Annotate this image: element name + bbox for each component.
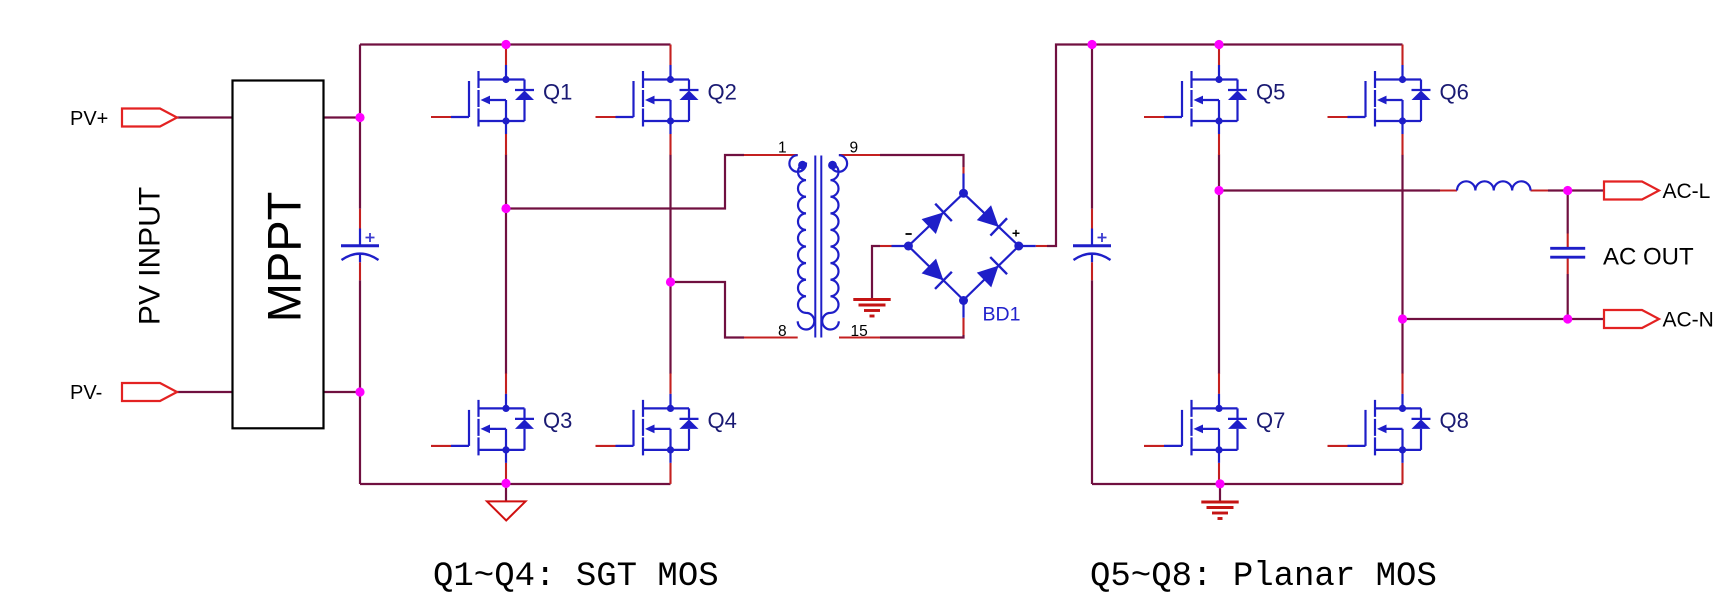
svg-text:Q2: Q2 (708, 79, 737, 104)
transistor Q8 (1328, 373, 1469, 484)
wire bottom rail left (360, 483, 671, 485)
wire AC-N rail (1403, 318, 1605, 320)
wire primary pin8 (671, 282, 745, 338)
connector PV- (122, 383, 177, 401)
ground under first bridge (487, 501, 526, 520)
diode BD1 upper-left (920, 204, 951, 236)
red pin stub pin15 (839, 336, 880, 338)
transistor Q1 (431, 45, 572, 156)
red pin stub pin9 (839, 154, 880, 156)
svg-text:Q8: Q8 (1440, 408, 1469, 433)
red pin stub pin1 (744, 154, 798, 156)
wire left vertical bus (359, 45, 361, 485)
wire bridge plus riser and top rail right (1047, 45, 1403, 247)
wire MPPT to bus upper (324, 116, 360, 118)
capacitor C3 (1550, 248, 1585, 257)
wire pin15 to bridge bottom (880, 335, 964, 338)
wire cap2 vertical (1091, 45, 1093, 485)
transistor Q7 (1144, 373, 1285, 484)
capacitor C2 (1073, 209, 1111, 281)
wire Q1-Q3 leg (505, 155, 507, 374)
red pin stub inductor right (1531, 189, 1549, 191)
red pin stub bridge bottom (962, 318, 964, 335)
wire AC-L to connector (1548, 189, 1604, 191)
ground under second bridge (1201, 502, 1238, 519)
capacitor C1 (341, 209, 379, 281)
node dots BD1 (904, 189, 1023, 305)
transistor Q6 (1328, 45, 1469, 156)
svg-text:Q3: Q3 (543, 408, 572, 433)
red pin stub bridge left (880, 245, 892, 247)
svg-text:Q5~Q8: Planar MOS: Q5~Q8: Planar MOS (1090, 558, 1437, 596)
svg-text:8: 8 (778, 323, 787, 340)
wire Q2-Q4 leg (669, 155, 671, 374)
wire AC-L rail (1219, 189, 1440, 191)
red pin stub inductor left (1440, 189, 1457, 191)
transistor Q5 (1144, 45, 1285, 156)
svg-text:Q1: Q1 (543, 79, 572, 104)
connector PV+ (122, 109, 177, 127)
wire primary pin1 (506, 155, 744, 209)
diode bridge BD1 outline (908, 193, 1018, 300)
block MPPT (233, 81, 324, 429)
svg-text:AC OUT: AC OUT (1603, 244, 1694, 271)
svg-text:AC-N: AC-N (1663, 309, 1714, 332)
wire top rail left (360, 43, 671, 45)
svg-text:1: 1 (778, 140, 787, 157)
label minus (906, 233, 912, 235)
svg-text:15: 15 (851, 323, 868, 340)
transistor Q4 (596, 373, 737, 484)
wire PV+ to MPPT (177, 116, 233, 118)
wire ground3 stub (1219, 484, 1221, 502)
wire pin9 to bridge top (880, 155, 964, 167)
svg-text:Q7: Q7 (1256, 408, 1285, 433)
svg-text:Q4: Q4 (708, 408, 737, 433)
svg-text:Q5: Q5 (1256, 79, 1285, 104)
svg-text:9: 9 (850, 140, 859, 157)
wire Q6-Q8 leg (1401, 155, 1403, 374)
transistor Q3 (431, 373, 572, 484)
red pin stub bridge top (962, 167, 964, 174)
bridge blue pin stubs (892, 174, 1036, 318)
red pin stub cap3 bottom (1567, 259, 1569, 275)
svg-text:MPPT: MPPT (258, 192, 311, 323)
connector AC-L (1604, 182, 1659, 200)
svg-text:PV-: PV- (70, 382, 102, 404)
svg-text:AC-L: AC-L (1663, 180, 1711, 203)
diode BD1 upper-right (976, 204, 1007, 236)
svg-text:PV INPUT: PV INPUT (134, 187, 167, 325)
svg-text:BD1: BD1 (983, 304, 1021, 326)
red pin stub pin8 (744, 336, 798, 338)
wire Q5-Q7 leg (1218, 155, 1220, 374)
label plus (1013, 230, 1020, 237)
wire cap3 vertical (1567, 191, 1569, 320)
diode BD1 lower-right (976, 257, 1007, 288)
wire bottom rail right (1092, 483, 1403, 485)
transistor Q2 (596, 45, 737, 156)
ground near BD1 (853, 300, 890, 317)
svg-text:Q6: Q6 (1440, 79, 1469, 104)
wire ground1 stub (505, 484, 507, 502)
wire MPPT to bus lower (324, 391, 360, 393)
connector AC-N (1604, 310, 1659, 328)
diode BD1 lower-left (920, 257, 951, 288)
red pin stub cap3 top (1567, 234, 1569, 248)
wire PV- to MPPT (177, 391, 233, 393)
transformer T1 (789, 155, 847, 337)
inductor L1 (1457, 181, 1531, 190)
red pin stub bridge right (1036, 245, 1047, 247)
svg-text:PV+: PV+ (70, 108, 108, 130)
svg-text:Q1~Q4: SGT MOS: Q1~Q4: SGT MOS (433, 558, 719, 596)
wire bridge minus to ground (872, 246, 880, 300)
